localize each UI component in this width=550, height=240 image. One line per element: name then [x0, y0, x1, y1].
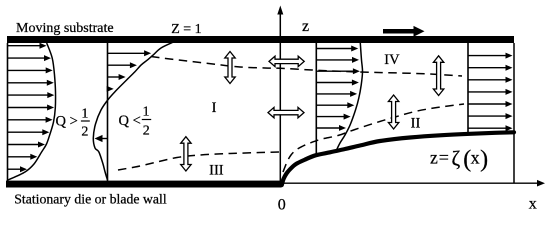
svg-text:=: = — [439, 147, 449, 167]
x axis — [282, 182, 539, 184]
z axis — [279, 13, 281, 181]
velocity profile 3 baseline — [315, 43, 317, 154]
svg-text:z: z — [430, 147, 438, 167]
svg-text:2: 2 — [81, 124, 88, 139]
velocity profile 1 arrows — [8, 43, 55, 173]
svg-text:x: x — [471, 148, 480, 168]
svg-text:Stationary die or blade wall: Stationary die or blade wall — [14, 191, 167, 206]
svg-text:1: 1 — [143, 105, 150, 120]
hollow vertical double arrow (region IV) — [433, 56, 443, 96]
hollow horizontal double arrow (lower, across z axis) — [268, 107, 304, 117]
svg-text:Q <: Q < — [119, 113, 141, 129]
hollow vertical double arrow (region II) — [388, 95, 398, 129]
lower-left dashed separatrix curve — [118, 152, 279, 170]
velocity profile 2 envelope curve — [93, 42, 173, 180]
velocity profile 4 arrows (uniform plug flow) — [468, 53, 513, 132]
svg-text:IV: IV — [384, 52, 400, 68]
velocity profile 2 baseline — [107, 43, 109, 181]
free surface curve z = zeta(x) — [282, 132, 514, 185]
velocity profile 1 baseline — [7, 43, 9, 181]
svg-text:II: II — [411, 115, 421, 131]
velocity profile 1 envelope curve — [8, 43, 56, 180]
upper dashed separatrix curve — [151, 57, 462, 77]
svg-text:I: I — [212, 100, 217, 116]
hollow vertical double arrow (region I, upper) — [225, 52, 235, 84]
svg-text:III: III — [209, 162, 224, 178]
right film boundary (film exit plane) — [513, 43, 515, 183]
svg-text:Z = 1: Z = 1 — [171, 22, 201, 37]
svg-text:Q >: Q > — [56, 114, 78, 130]
substrate velocity arrow (thick solid) — [383, 29, 416, 34]
lower-right dashed separatrix curve — [283, 104, 464, 172]
velocity profile 4 baseline — [467, 43, 469, 133]
stationary die / blade wall (bottom-left bar) — [6, 181, 282, 188]
svg-text:z: z — [302, 18, 309, 35]
velocity profile 3 arrows — [316, 46, 360, 131]
hollow vertical double arrow (region III) — [181, 137, 191, 171]
velocity profile 2 forward arrows — [107, 50, 151, 92]
hollow horizontal double arrow (upper, across z axis) — [269, 56, 304, 66]
svg-text:Moving substrate: Moving substrate — [16, 21, 114, 36]
svg-text:x: x — [529, 196, 537, 213]
svg-text:ζ: ζ — [452, 147, 461, 171]
velocity profile 3 envelope curve — [337, 43, 363, 150]
svg-text:0: 0 — [278, 196, 286, 213]
svg-text:): ) — [480, 147, 488, 173]
svg-text:2: 2 — [143, 123, 150, 138]
moving substrate (top wall bar) — [7, 36, 514, 43]
svg-text:1: 1 — [81, 107, 88, 122]
velocity profile 2 backflow arrow (points left) — [101, 138, 108, 140]
